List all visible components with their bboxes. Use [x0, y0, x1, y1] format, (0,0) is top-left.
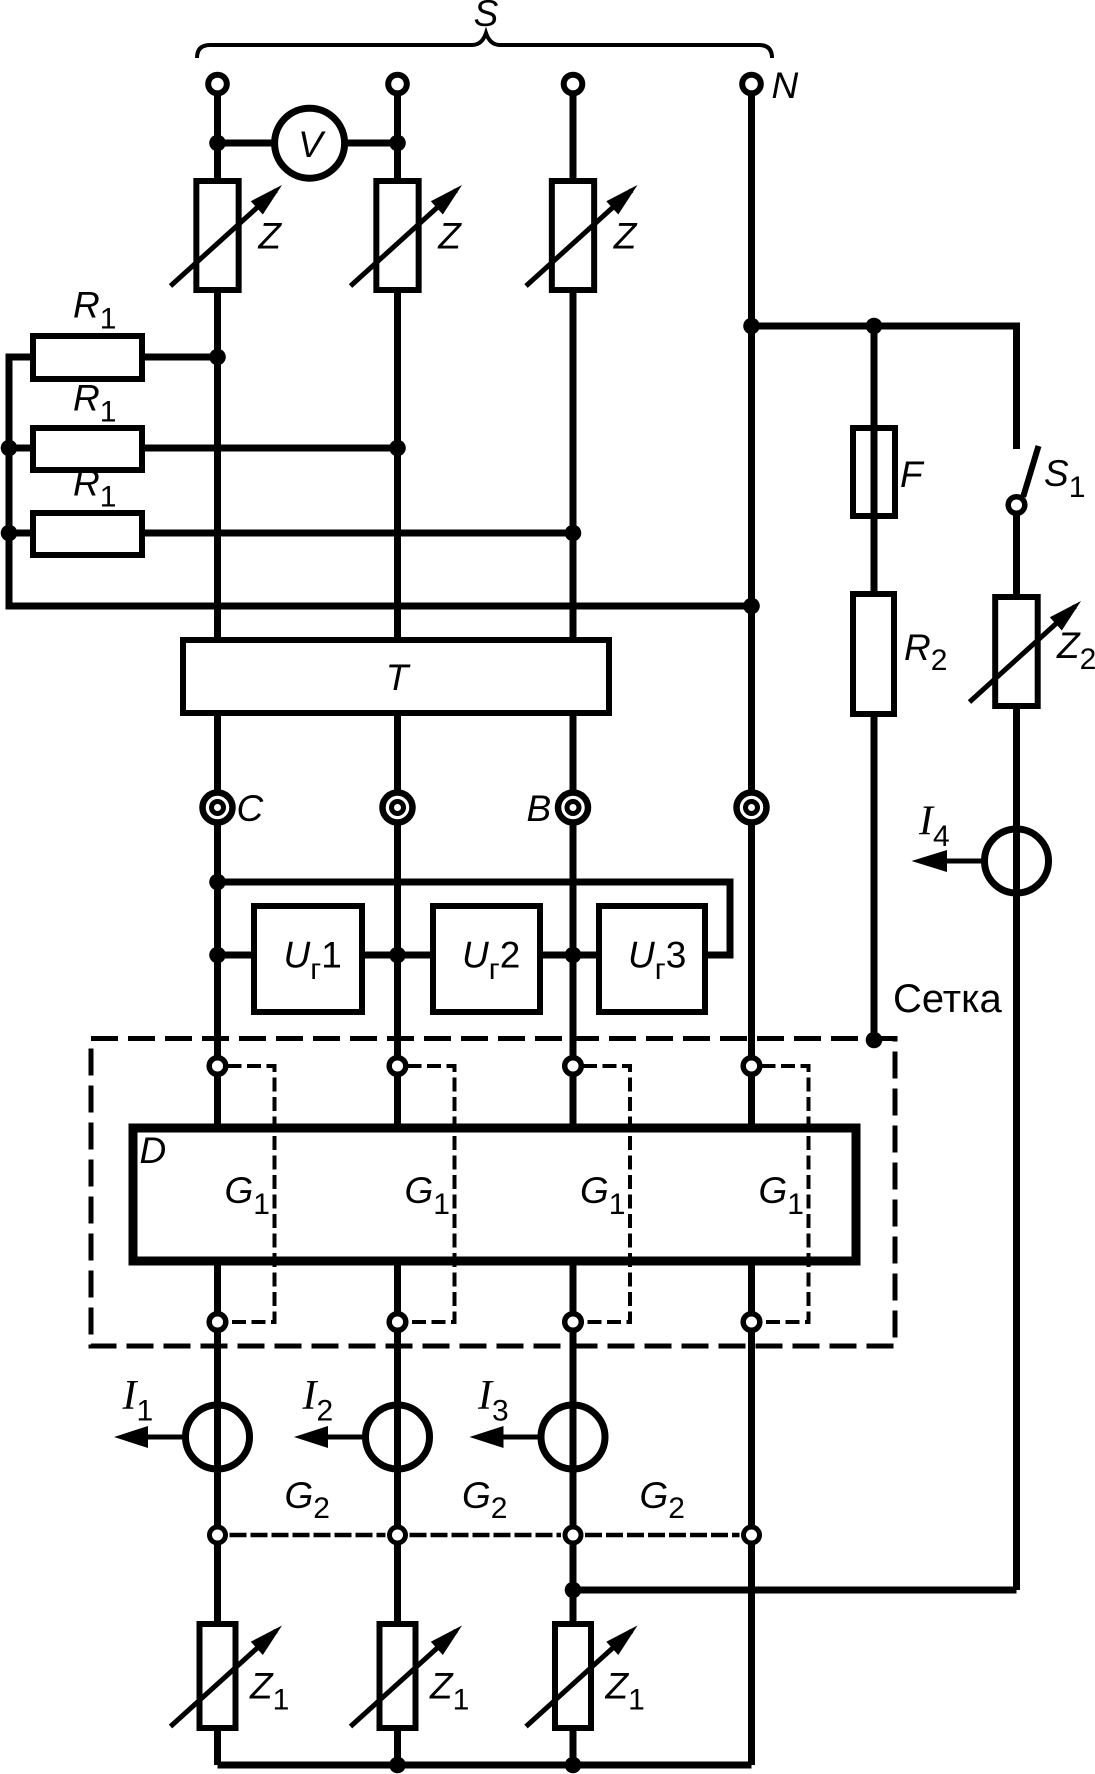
svg-text:T: T [386, 657, 411, 698]
wire Ur1 to Ur2 [362, 952, 433, 959]
dashed enclosure (converter cabinet) [91, 1039, 895, 1347]
cabinet input terminal line N [743, 1058, 760, 1075]
wire Ur2 to Ur3 [540, 952, 599, 959]
brace S (supply) [197, 33, 772, 58]
dashed G1 loop 4 [762, 1066, 809, 1322]
supply terminal line 1 [208, 75, 227, 94]
junction R1b/line2 [389, 440, 406, 457]
wire line1 to Ur1 [218, 952, 255, 959]
svg-text:Z: Z [613, 216, 638, 257]
junction R1c/line3 [565, 525, 582, 542]
dashed G1 loop 2 [408, 1066, 455, 1322]
impedance Z phase 1 (variable) [171, 181, 283, 290]
wire voltmeter branch [218, 140, 398, 147]
cabinet input terminal line 1 [209, 1058, 226, 1075]
wire neutral bus N (line 4) [748, 84, 755, 1765]
wire N to right branches [752, 326, 1017, 449]
wire R1c left [9, 530, 33, 537]
svg-text:B: B [527, 788, 552, 829]
resistor R1 (top) [33, 336, 142, 379]
wire bottom return [218, 1762, 752, 1769]
supply terminal line 3 [564, 75, 583, 94]
svg-text:C: C [237, 788, 264, 829]
svg-text:D: D [140, 1130, 167, 1171]
dashed G2 link 3-4 [585, 1533, 740, 1538]
junction R2 to cabinet [866, 1032, 883, 1049]
junction bottom line3 [565, 1757, 582, 1774]
svg-text:Z: Z [437, 216, 462, 257]
wire phase line 2 [394, 84, 401, 1765]
resistor R2 [853, 594, 894, 714]
junction N/R1 return [743, 598, 760, 615]
G2 terminal line 2 [390, 1527, 406, 1543]
block Ur3 [599, 906, 705, 1012]
svg-text:Z: Z [257, 216, 282, 257]
output terminal line 3 [558, 793, 588, 823]
resistor R1 (bottom) [33, 513, 142, 555]
svg-text:F: F [900, 454, 925, 495]
wire left rail (R1 common) and bottom R1 return to N [9, 357, 752, 606]
dashed G1 loop 1 [228, 1066, 275, 1322]
resistor R1 (middle) [33, 428, 142, 470]
current transducer I2 [294, 1405, 430, 1469]
transformer T [183, 640, 609, 713]
supply terminal line 2 [388, 75, 407, 94]
converter block D [133, 1128, 856, 1261]
wire R1a to line 1 [142, 354, 218, 361]
svg-text:S: S [474, 0, 499, 34]
output terminal line 2 [383, 793, 413, 823]
output terminal line 1 [203, 793, 233, 823]
wire R1b left [9, 445, 33, 452]
impedance Z1 phase 2 (variable) [351, 1624, 463, 1728]
impedance Z phase 2 (variable) [351, 181, 463, 290]
cabinet output terminal line 3 [565, 1314, 582, 1331]
junction N branch [743, 318, 760, 335]
block Ur1 [254, 906, 362, 1012]
cabinet output terminal line 2 [389, 1314, 406, 1331]
cabinet output terminal line 1 [209, 1314, 226, 1331]
wire R1c to line 3 [142, 530, 573, 537]
output terminal line N [737, 793, 767, 823]
wire Ur feedback loop [218, 882, 731, 955]
impedance Z2 (variable) [970, 597, 1082, 706]
dashed G1 loop 3 [583, 1066, 630, 1322]
wire phase-B bus (line 3) [570, 84, 577, 1765]
junction left rail c [1, 525, 18, 542]
junction Ur loop on line1 [209, 874, 226, 891]
impedance Z phase 3 (variable) [526, 181, 638, 290]
svg-text:Сетка: Сетка [893, 977, 1003, 1021]
cabinet input terminal line 2 [389, 1058, 406, 1075]
impedance Z1 phase 3 (variable) [526, 1624, 638, 1728]
G2 terminal line N [744, 1527, 760, 1543]
junction fuse branch [866, 318, 883, 335]
block Ur2 [433, 906, 540, 1012]
cabinet input terminal line 3 [565, 1058, 582, 1075]
cabinet output terminal line N [743, 1314, 760, 1331]
wire fuse/R2 branch [871, 326, 878, 1040]
junction left rail b [1, 440, 18, 457]
wire R1b to line 2 [142, 445, 398, 452]
dashed G2 link 2-3 [410, 1533, 562, 1538]
wire phase-A bus (line 1) [214, 84, 221, 1765]
junction R1a/line1 [209, 349, 226, 366]
current transducer I1 [114, 1405, 250, 1469]
supply terminal line N [742, 75, 761, 94]
svg-text:V: V [298, 124, 326, 165]
current transducer I4 [912, 829, 1049, 893]
switch S1 [1008, 446, 1038, 513]
voltmeter V [275, 108, 345, 178]
wire line3 to Z2 branch [573, 1587, 1017, 1594]
G2 terminal line 1 [210, 1527, 226, 1543]
current transducer I3 [470, 1405, 606, 1469]
G2 terminal line 3 [565, 1527, 581, 1543]
svg-text:N: N [772, 65, 799, 106]
fuse F [853, 428, 895, 516]
wire S1 to Z2 to grid corner [1013, 514, 1020, 1590]
junction bottom line2 [389, 1757, 406, 1774]
dashed G2 link 1-2 [230, 1533, 386, 1538]
junction V- on line 2 [389, 135, 406, 152]
junction Ur on line3 [565, 947, 582, 964]
junction line3 to Z2 branch [565, 1582, 582, 1599]
junction Ur1 on line1 [209, 947, 226, 964]
junction Ur on line2 [389, 947, 406, 964]
impedance Z1 phase 1 (variable) [171, 1624, 283, 1728]
junction V+ on line 1 [209, 135, 226, 152]
